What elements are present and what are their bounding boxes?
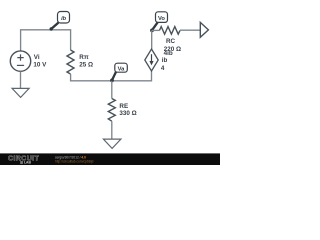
svg-text:RC: RC <box>166 38 176 45</box>
voltage source V1 plus sign <box>17 54 23 60</box>
svg-text:Vi: Vi <box>34 54 40 61</box>
svg-text:ib: ib <box>61 16 67 22</box>
svg-text:RE: RE <box>119 103 128 110</box>
svg-text:Va: Va <box>118 66 126 72</box>
junction dot node Vo <box>150 29 154 33</box>
resistor R1 (Rpi) zigzag <box>67 50 74 74</box>
current probe ib box <box>58 12 70 24</box>
svg-text:25 Ω: 25 Ω <box>79 61 93 68</box>
svg-text:Rπ: Rπ <box>79 54 89 61</box>
wire node Vo down to CCCS <box>151 30 153 49</box>
svg-text:4: 4 <box>161 65 165 72</box>
ground symbol (Vi) <box>12 88 29 97</box>
controlled current source (CCCS 4ib) diamond <box>145 49 158 71</box>
svg-text:ib: ib <box>162 57 168 64</box>
svg-text:4ib: 4ib <box>164 50 173 57</box>
voltage probe Vo box <box>156 12 168 23</box>
svg-text:http://circuitlab.com/cpb3ljd: http://circuitlab.com/cpb3ljd <box>55 159 94 163</box>
watermark bar <box>0 153 220 165</box>
wire rail to RE top <box>111 81 113 99</box>
svg-text:Vo: Vo <box>158 16 165 22</box>
voltage probe Va pole <box>112 72 116 80</box>
voltage probe Vo pole <box>152 22 157 30</box>
voltage source V1 (Vi) body <box>10 51 30 71</box>
resistor R2 (RE) zigzag <box>108 99 115 122</box>
wire Vi bottom to ground <box>20 71 22 88</box>
wire top-left net (Vi top to Rpi top) <box>21 30 71 51</box>
wire RC to output port <box>180 29 200 31</box>
current probe ib tip blob <box>50 27 53 30</box>
ground symbol (RE) <box>103 139 121 148</box>
current probe ib pole <box>51 23 58 29</box>
CCCS arrow <box>151 54 153 61</box>
resistor R3 (RC) zigzag <box>160 27 181 35</box>
output port flag <box>200 22 208 37</box>
junction dot node Va <box>110 79 114 83</box>
wire RE bottom to ground <box>111 121 113 139</box>
voltage probe Va box <box>115 63 128 72</box>
wire bottom rail node Va <box>71 71 152 81</box>
voltage source V1 minus sign <box>17 64 24 66</box>
svg-text:330 Ω: 330 Ω <box>119 110 136 117</box>
svg-text:10 V: 10 V <box>33 61 47 68</box>
wire Rpi bottom to rail <box>70 74 72 81</box>
wire node Vo to RC <box>152 29 160 31</box>
svg-text:☰ LAB: ☰ LAB <box>20 160 32 164</box>
